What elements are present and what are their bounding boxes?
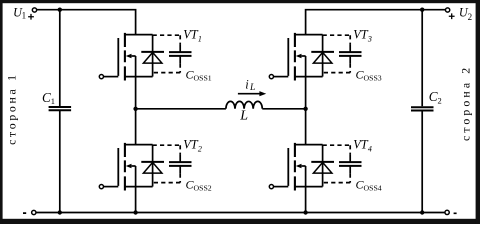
svg-text:2: 2	[438, 95, 442, 105]
svg-text:сторона 1: сторона 1	[4, 72, 18, 145]
svg-text:L: L	[249, 83, 255, 93]
svg-text:i: i	[245, 78, 249, 92]
svg-text:OSS2: OSS2	[194, 183, 212, 192]
svg-text:L: L	[239, 108, 248, 123]
svg-text:OSS3: OSS3	[364, 73, 382, 82]
svg-text:VT: VT	[353, 28, 369, 42]
svg-text:4: 4	[368, 144, 372, 153]
svg-text:OSS4: OSS4	[364, 183, 382, 192]
svg-text:3: 3	[367, 34, 372, 43]
svg-text:сторона 2: сторона 2	[458, 65, 472, 141]
svg-text:VT: VT	[183, 138, 199, 152]
svg-text:C: C	[42, 90, 51, 105]
svg-text:1: 1	[51, 96, 55, 106]
svg-text:VT: VT	[353, 138, 369, 152]
svg-text:OSS1: OSS1	[194, 73, 212, 82]
svg-text:1: 1	[198, 34, 202, 43]
svg-text:1: 1	[22, 11, 27, 21]
svg-text:C: C	[429, 89, 438, 104]
svg-text:2: 2	[198, 144, 202, 153]
svg-text:VT: VT	[183, 28, 199, 42]
svg-text:2: 2	[468, 12, 473, 22]
